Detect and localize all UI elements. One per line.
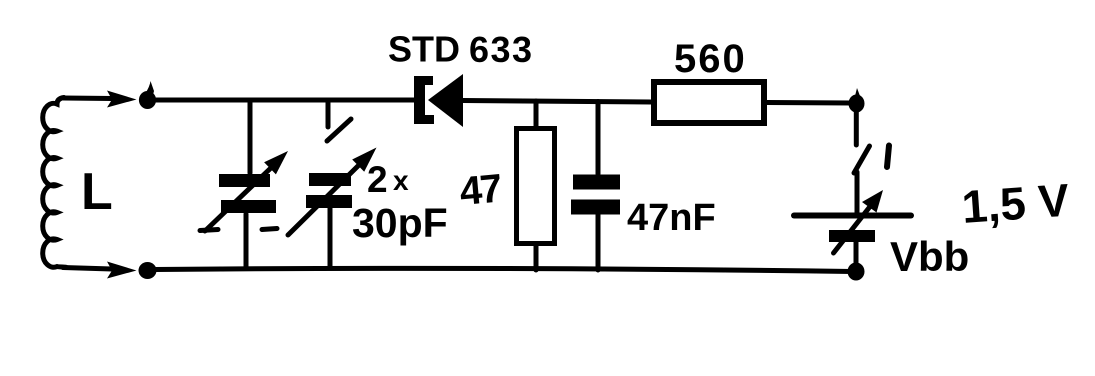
wire top (diode to resistor 560) (463, 101, 651, 103)
label 2x (367, 159, 409, 200)
wire right vertical upper (854, 110, 859, 145)
svg-text:x: x (393, 165, 409, 196)
node top right (849, 88, 865, 113)
svg-text:1,5 V: 1,5 V (960, 174, 1071, 233)
resistor R1 47 (517, 101, 555, 270)
svg-text:633: 633 (469, 29, 534, 70)
wire top-left bottom from coil to arrow (63, 268, 112, 270)
capacitor C3 47nF (571, 102, 620, 271)
label 47nF (627, 197, 716, 239)
ganged link dash (262, 229, 277, 230)
wire top (dot to diode) (155, 98, 416, 103)
wire top-left from coil to arrow (63, 96, 112, 102)
svg-text:47nF: 47nF (627, 197, 716, 239)
node bottom right (848, 263, 865, 281)
svg-text:STD: STD (388, 29, 460, 70)
terminal dot top (139, 81, 156, 109)
variable capacitor C2 (288, 100, 377, 268)
label 1,5 V (960, 174, 1071, 233)
label Vbb (890, 233, 969, 280)
variable capacitor C1 (200, 100, 288, 268)
label 47 (458, 167, 503, 214)
battery Vbb (794, 190, 911, 266)
switch I (854, 146, 889, 214)
label 30pF (352, 200, 448, 246)
inductor L (43, 98, 66, 268)
resistor R2 560 (654, 82, 852, 123)
svg-text:Vbb: Vbb (890, 233, 969, 280)
svg-text:560: 560 (674, 37, 747, 81)
svg-text:2: 2 (367, 159, 388, 200)
label STD 633 (388, 29, 534, 71)
diode STD633 (414, 74, 463, 127)
svg-text:47: 47 (458, 167, 503, 214)
svg-text:30pF: 30pF (352, 200, 448, 246)
arrow top-left (107, 91, 137, 108)
terminal dot bottom (139, 262, 157, 279)
svg-text:L: L (81, 163, 113, 221)
label 560 (674, 37, 747, 81)
label L (81, 163, 113, 221)
arrow bottom-left (107, 262, 137, 279)
wire bottom (155, 268, 852, 271)
